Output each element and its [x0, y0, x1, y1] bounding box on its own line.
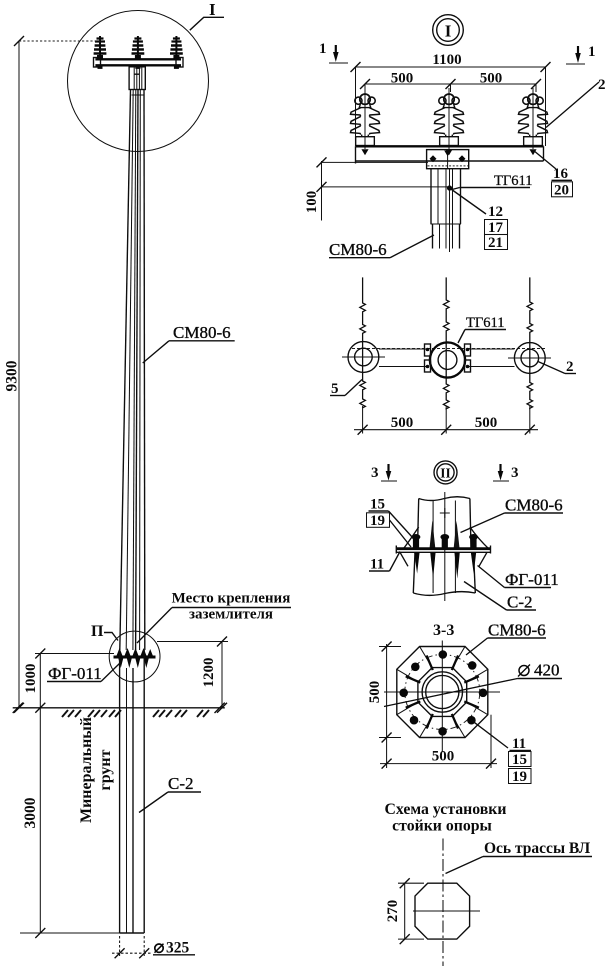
svg-text:1: 1	[319, 41, 327, 57]
svg-text:I: I	[445, 22, 452, 41]
svg-text:3000: 3000	[22, 797, 39, 828]
flange end hooks (detail II)	[400, 552, 487, 566]
label 2 (top right)	[546, 77, 606, 128]
SECTION 1-1 VIEW	[330, 277, 576, 484]
pole body (detail II)	[413, 492, 475, 601]
pole top box	[129, 67, 145, 90]
svg-text:500: 500	[475, 415, 498, 431]
octagon (scheme)	[415, 883, 470, 939]
svg-text:9300: 9300	[4, 360, 21, 391]
svg-text:19: 19	[512, 769, 527, 785]
dimension 500 horizontal (section 3-3)	[380, 715, 497, 769]
INSTALL SCHEME VIEW	[384, 801, 592, 966]
section mark 3 right	[493, 464, 519, 481]
label FG-011 (left view)	[47, 663, 120, 683]
svg-text:3: 3	[511, 465, 519, 481]
svg-text:3-3: 3-3	[433, 622, 454, 639]
svg-text:Минеральный: Минеральный	[78, 717, 95, 823]
svg-text:2: 2	[598, 77, 606, 93]
wire right (wavy)	[527, 277, 533, 408]
svg-text:270: 270	[385, 900, 401, 923]
svg-text:12: 12	[488, 204, 503, 220]
svg-text:ФГ-011: ФГ-011	[505, 570, 559, 589]
svg-text:1: 1	[588, 44, 596, 60]
dimension 500 vertical (section 3-3)	[367, 642, 401, 743]
ground line	[13, 703, 225, 713]
dimension 270	[385, 878, 424, 944]
pole shaft lines (ground level taper)	[120, 90, 145, 651]
svg-text:ФГ-011: ФГ-011	[48, 664, 102, 683]
label C-2 (left view)	[139, 774, 201, 813]
dimension 1200	[157, 637, 228, 713]
flange plate FG-011 (detail II)	[396, 546, 490, 554]
label CM80-6 (detail II)	[461, 496, 564, 533]
labels 12 17 21	[450, 188, 508, 251]
section mark 3 left with circled II	[371, 464, 397, 481]
svg-text:420: 420	[534, 661, 560, 680]
svg-text:стойки опоры: стойки опоры	[392, 818, 492, 835]
label FG-011 (detail II)	[478, 566, 559, 590]
horizontal axis line (scheme)	[413, 910, 480, 912]
radial gussets (section 3-3)	[406, 656, 479, 729]
TG611 bracket box	[427, 150, 469, 169]
svg-text:С-2: С-2	[507, 593, 533, 612]
dimension 3000	[20, 708, 120, 938]
svg-text:ТГ611: ТГ611	[494, 173, 532, 189]
label 2 (section 1-1)	[538, 359, 576, 375]
underground pole (C-2 stand)	[120, 650, 145, 933]
circled I view marker	[433, 15, 464, 46]
svg-text:15: 15	[512, 752, 527, 768]
pin circle right (section 1-1)	[508, 343, 551, 374]
dimension 1100	[351, 52, 551, 146]
circled II view marker	[434, 461, 457, 484]
anchor bolts (section 3-3)	[399, 650, 487, 735]
label TG611 (detail I)	[452, 173, 532, 190]
svg-text:20: 20	[554, 183, 569, 199]
dimension 500 500 (section 1-1)	[354, 406, 538, 435]
upper gussets (detail II)	[404, 521, 489, 549]
label 5	[330, 380, 362, 398]
label Os trassy VL	[446, 840, 593, 874]
svg-text:500: 500	[432, 749, 455, 765]
label P (II detail mark)	[91, 623, 118, 641]
svg-text:11: 11	[370, 557, 384, 573]
dimension 1000	[23, 649, 114, 713]
svg-text:Ось трассы ВЛ: Ось трассы ВЛ	[484, 840, 591, 857]
svg-text:1100: 1100	[432, 52, 461, 68]
svg-text:СМ80-6: СМ80-6	[329, 240, 387, 259]
insulator 2 (detail I)	[435, 88, 464, 155]
lower spikes (detail II)	[414, 552, 476, 579]
svg-text:СМ80-6: СМ80-6	[488, 621, 546, 640]
SECTION 3-3 VIEW	[367, 621, 562, 786]
svg-text:325: 325	[166, 940, 190, 957]
svg-text:II: II	[440, 466, 451, 481]
label CM80-6 (left view)	[143, 323, 235, 363]
label C-2 (detail II)	[464, 582, 536, 612]
centerlines (section 3-3)	[384, 641, 500, 753]
LEFT ELEVATION VIEW	[4, 0, 292, 958]
ground hatching	[62, 710, 209, 717]
insulator right (left view)	[170, 36, 183, 69]
svg-text:I: I	[209, 0, 216, 19]
pipe circles d420	[422, 672, 462, 712]
leader to label I	[190, 17, 224, 30]
svg-text:11: 11	[512, 736, 526, 752]
grounding flange assembly (left view)	[114, 648, 156, 668]
dimension 100	[304, 157, 449, 220]
svg-text:3: 3	[371, 465, 379, 481]
DETAIL I VIEW	[304, 15, 606, 259]
svg-text:19: 19	[370, 513, 385, 529]
svg-text:ТГ611: ТГ611	[466, 315, 504, 331]
label CM80-6 (section 3-3)	[466, 621, 546, 656]
label Mineralnyi grunt (rotated)	[78, 717, 114, 823]
svg-text:С-2: С-2	[168, 774, 194, 793]
octagon corner connectors (section 3-3)	[397, 647, 488, 738]
wire left (wavy)	[360, 277, 366, 408]
pin circle left (section 1-1)	[342, 342, 385, 373]
detail circle II (left view)	[109, 631, 160, 682]
wire middle (wavy)	[443, 277, 449, 408]
svg-text:500: 500	[480, 71, 503, 87]
svg-text:1200: 1200	[201, 658, 217, 688]
insulator 3 (detail I)	[519, 88, 548, 155]
dimension 9300	[4, 36, 101, 713]
vertical axis line (scheme)	[442, 839, 444, 967]
inner octagon (section 3-3)	[418, 668, 467, 717]
TG611 flange (section 1-1 center)	[425, 342, 471, 377]
outer octagon (section 3-3)	[397, 647, 488, 738]
center cross mark	[440, 508, 450, 518]
svg-text:П: П	[91, 623, 104, 640]
labels 16 20	[533, 150, 573, 199]
crossarm (left view)	[94, 58, 184, 68]
svg-text:5: 5	[331, 381, 339, 397]
svg-text:15: 15	[370, 497, 385, 513]
svg-text:21: 21	[488, 235, 503, 251]
bolt circle (dash-dot)	[405, 655, 480, 730]
svg-text:Схема установки: Схема установки	[384, 801, 506, 818]
crossarm (detail I)	[356, 146, 544, 163]
insulator middle (left view)	[132, 36, 145, 69]
svg-text:500: 500	[391, 71, 414, 87]
label d420	[384, 661, 562, 707]
node dot on pole	[447, 185, 452, 190]
label Mesto krepleniya zazemlitelya	[137, 591, 291, 644]
label 19 (boxed)	[367, 513, 412, 547]
svg-text:500: 500	[367, 681, 383, 704]
pole upper section (detail I)	[431, 169, 462, 252]
crossarm band (section 1-1)	[352, 349, 545, 367]
svg-text:100: 100	[304, 191, 320, 214]
svg-text:17: 17	[488, 220, 504, 236]
svg-text:СМ80-6: СМ80-6	[173, 323, 231, 342]
svg-text:500: 500	[391, 415, 414, 431]
label TG611 (section 1-1)	[458, 315, 506, 343]
svg-text:грунт: грунт	[97, 749, 114, 790]
svg-text:заземлителя: заземлителя	[189, 607, 273, 623]
scheme title	[384, 801, 506, 835]
section mark 1 left	[319, 41, 348, 63]
svg-text:1000: 1000	[23, 664, 39, 694]
label CM80-6 (detail I)	[329, 235, 434, 259]
insulator 1 (detail I)	[351, 88, 380, 155]
flange bolts (detail II)	[412, 534, 478, 549]
svg-text:СМ80-6: СМ80-6	[505, 496, 563, 515]
detail circle I	[68, 11, 209, 152]
labels 11 15 19 (section 3-3)	[471, 720, 531, 785]
label 11 (detail II)	[369, 552, 400, 573]
insulator left (left view)	[94, 36, 107, 69]
dimension 500 500	[360, 71, 541, 93]
section mark 1 right	[566, 44, 596, 64]
label 15	[369, 497, 414, 539]
dimension d325	[112, 936, 195, 958]
svg-text:Место крепления: Место крепления	[172, 591, 291, 607]
svg-text:2: 2	[566, 359, 574, 375]
DETAIL II VIEW	[367, 492, 564, 612]
